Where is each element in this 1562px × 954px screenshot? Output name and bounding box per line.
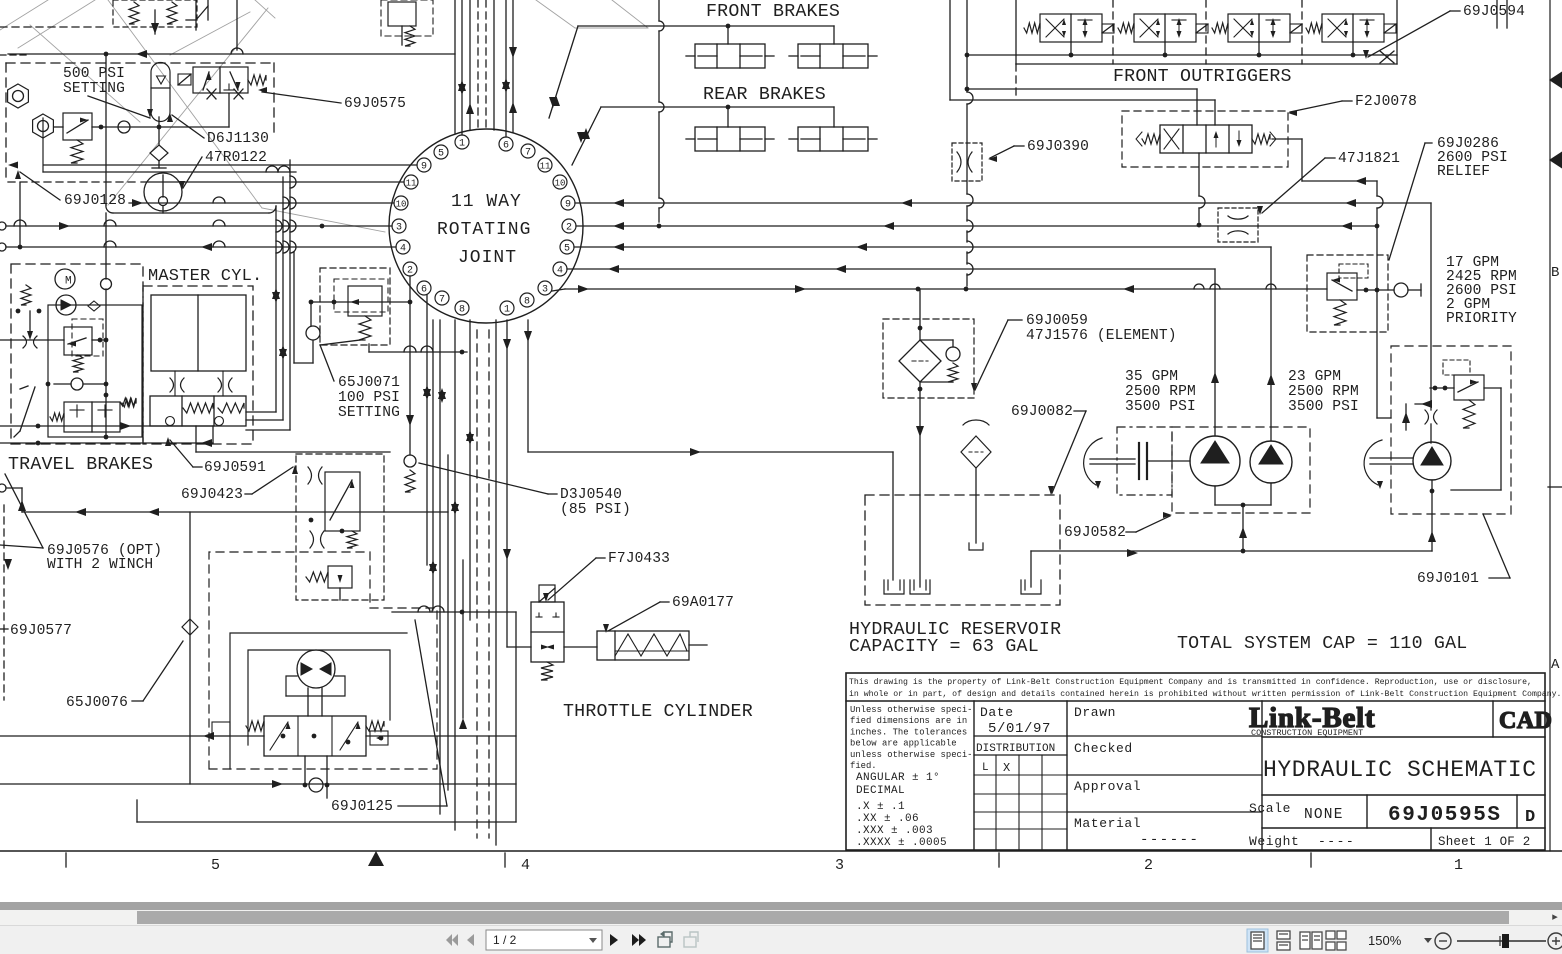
svg-text:3: 3 (542, 285, 548, 296)
wire supply y452 (196, 451, 390, 453)
wire leader 69J0125 (398, 805, 447, 807)
wire master loop 3 (289, 160, 291, 430)
valve 69J0423 body (325, 472, 360, 531)
wire leader 69J0390 (1014, 145, 1024, 147)
svg-text:47R0122: 47R0122 (205, 150, 267, 166)
wire breather drop (975, 468, 977, 543)
orifice steer (1425, 410, 1429, 424)
wire front brake header (578, 25, 834, 27)
brake cylinder front-left (695, 44, 765, 68)
svg-text:in whole or in part, of design: in whole or in part, of design and detai… (849, 689, 1561, 699)
svg-text:47J1821: 47J1821 (1338, 151, 1400, 167)
pump charge (56, 295, 76, 315)
two page mode (1300, 932, 1322, 949)
wire pump drain (1242, 505, 1244, 551)
spring priority (1334, 300, 1346, 325)
wire master loop 1 (275, 206, 277, 412)
svg-text:TOTAL SYSTEM CAP = 110 GAL: TOTAL SYSTEM CAP = 110 GAL (1177, 634, 1467, 654)
wire top right riser (1496, 0, 1498, 28)
boundary inner solid (43, 171, 296, 173)
node pin 3 (538, 281, 552, 295)
label 69J0577 (0, 628, 8, 630)
orifice mid (310, 531, 314, 548)
svg-text:9: 9 (421, 162, 427, 173)
wire leader 47J1821 (1325, 157, 1335, 159)
svg-text:69J0423: 69J0423 (181, 487, 243, 503)
node pin 1 (500, 301, 514, 315)
wire master loop 2 (282, 177, 284, 420)
check diamond 65J0071 (306, 326, 320, 340)
svg-text:69J0577: 69J0577 (10, 623, 72, 639)
wire rear brake drop left (727, 107, 729, 127)
node pin 9 (561, 196, 575, 210)
wire port lines (54, 126, 63, 128)
breather diamond (961, 436, 991, 468)
spring F2J0078 left (1142, 134, 1160, 144)
svg-text:69J0591: 69J0591 (204, 460, 266, 476)
boundary master cyl (143, 286, 253, 444)
spring F7J0433 (541, 662, 553, 680)
boundary travel-brake supply unit (6, 62, 274, 64)
wire leader D6J1130 (172, 115, 204, 138)
svg-text:6: 6 (421, 285, 427, 296)
valve outrigger 3 (1228, 14, 1290, 42)
check valve winch (309, 778, 323, 792)
svg-text:F2J0078: F2J0078 (1355, 94, 1417, 110)
wire manifold drop (195, 426, 197, 452)
svg-text:4: 4 (400, 244, 406, 255)
svg-text:------: ------ (1140, 832, 1199, 848)
node pin 11 (404, 175, 418, 189)
wire motor drops (307, 688, 309, 716)
motor M (55, 269, 75, 289)
svg-text:PRIORITY: PRIORITY (1446, 311, 1517, 327)
wire wiggle y612 (392, 611, 516, 613)
node center marker (368, 851, 384, 866)
wire throttle feed (507, 646, 531, 648)
svg-text:Sheet 1 OF 2: Sheet 1 OF 2 (1438, 835, 1530, 849)
node pin 10 (553, 175, 567, 189)
wire drop x20 (19, 183, 21, 245)
svg-text:CAD: CAD (1499, 708, 1553, 734)
node border tick 3 (998, 853, 1000, 867)
boundary tolerance cell (973, 701, 975, 850)
wire bottom rail y822 (137, 821, 516, 823)
boundary travel brakes inner (48, 305, 142, 437)
boundary winch outer (209, 552, 437, 769)
wire 69J0575 feed (228, 94, 230, 127)
svg-text:MASTER CYL.: MASTER CYL. (148, 267, 262, 286)
svg-text:47J1576 (ELEMENT): 47J1576 (ELEMENT) (1026, 328, 1177, 344)
pilot box left (212, 722, 230, 736)
winch control valve (264, 716, 366, 756)
wire front brake drop right (833, 26, 835, 44)
svg-text:inches. The tolerances: inches. The tolerances (850, 727, 967, 737)
spring steer (1463, 400, 1475, 428)
svg-text:69J0582: 69J0582 (1064, 525, 1126, 541)
svg-text:1: 1 (1454, 857, 1463, 874)
svg-text:69J0101: 69J0101 (1417, 571, 1479, 587)
svg-text:D: D (1525, 808, 1535, 827)
last page button (632, 934, 646, 946)
node pin 7 (521, 144, 535, 158)
wire bus pin3 left (0, 222, 6, 230)
svg-text:5/01/97: 5/01/97 (988, 721, 1051, 737)
coupling (1138, 443, 1140, 479)
wire bus pin10 left (129, 202, 394, 204)
wire riser x528 (527, 320, 529, 452)
check diamond (88, 301, 100, 311)
wire left dashed riser (3, 505, 5, 700)
svg-text:NONE: NONE (1304, 807, 1344, 823)
svg-text:RELIEF: RELIEF (1437, 164, 1490, 180)
zoom in button (1548, 933, 1562, 949)
boundary CAD cell (1492, 701, 1494, 737)
svg-text:3500 PSI: 3500 PSI (1125, 399, 1196, 415)
node pin 6 (417, 281, 431, 295)
svg-text:ROTATING: ROTATING (437, 220, 531, 240)
wire connector y213 (106, 205, 113, 213)
scrollbar upper strip (0, 902, 1562, 910)
svg-text:69J0128: 69J0128 (64, 193, 126, 209)
svg-text:fied dimensions are in: fied dimensions are in (850, 716, 967, 726)
page number box (486, 930, 602, 950)
cyl ports (174, 371, 176, 396)
svg-text:10: 10 (396, 200, 407, 210)
valve steer relief inner (1443, 360, 1470, 375)
wire leader F7J0433 (596, 557, 605, 559)
boundary 65J0071 (320, 268, 390, 345)
valve top x200 (195, 0, 197, 30)
svg-text:.XXX ± .003: .XXX ± .003 (856, 825, 933, 837)
wire winch loop (248, 650, 390, 745)
wire leader 65J0076 (132, 700, 143, 702)
svg-text:DISTRIBUTION: DISTRIBUTION (976, 743, 1055, 755)
wire leader 65J0071 (320, 345, 334, 381)
svg-text:6: 6 (503, 141, 509, 152)
wire riser x507 throttle (506, 320, 508, 647)
wire bus pin5 right (574, 246, 1271, 248)
wire leader 69J0591 (193, 466, 202, 468)
valve 69J0575 solenoid (193, 67, 248, 93)
steering pump (1413, 442, 1451, 480)
valve priority relief (1327, 273, 1357, 300)
zoom slider track (1457, 940, 1546, 942)
wire riser pin2 (409, 276, 411, 455)
wire leader F2J0078 (1342, 100, 1352, 102)
svg-text:69J0059: 69J0059 (1026, 313, 1088, 329)
wire leader 500psi (88, 96, 150, 118)
boundary scale row (1262, 794, 1545, 796)
pump 23gpm (1250, 441, 1292, 483)
wire priority out (1357, 289, 1394, 291)
fitting hex port B (33, 114, 54, 138)
node pin 9 (417, 158, 431, 172)
svg-text:Drawn: Drawn (1074, 705, 1116, 720)
wire leader 69J0101 (1489, 577, 1510, 579)
wire pump out 23 (1270, 247, 1272, 441)
node pin 5 (434, 145, 448, 159)
wire rear brake header (601, 106, 834, 108)
wire bus pin9 left (44, 164, 417, 166)
wire leader 69J0286 (1425, 142, 1432, 144)
svg-text:1: 1 (504, 305, 510, 316)
brake cylinder front-right (798, 44, 868, 68)
wire relief out (92, 126, 229, 128)
wire accumulator drop (158, 117, 160, 145)
scrollbar thumb (137, 911, 1509, 924)
svg-text:11: 11 (540, 162, 551, 172)
node pin 8 (455, 301, 469, 315)
spring reducer (306, 572, 328, 582)
check valve diamond (150, 145, 168, 161)
svg-text:CAPACITY = 63 GAL: CAPACITY = 63 GAL (849, 637, 1039, 657)
wire relief line (0, 339, 64, 341)
winch motor (297, 650, 335, 688)
wire 65J0071 line (311, 301, 410, 303)
wire dashed top-left (0, 26, 108, 28)
spring left of manifold (122, 399, 136, 407)
svg-text:WITH 2 WINCH: WITH 2 WINCH (47, 557, 153, 573)
check valve ball (118, 121, 130, 133)
node pin 4 (396, 240, 410, 254)
node pin 7 (435, 291, 449, 305)
boundary filter 69J0059 (883, 319, 974, 398)
wire filter feed (919, 289, 921, 340)
node border tick 2 (504, 853, 506, 867)
valve 65J0071 relief (348, 286, 382, 316)
boundary relief dashed (72, 319, 103, 356)
brake cylinder rear-right (798, 127, 868, 151)
node zone B arrow (1549, 72, 1562, 89)
svg-text:3: 3 (835, 857, 844, 874)
wire winch drain (304, 756, 306, 785)
svg-text:REAR BRAKES: REAR BRAKES (703, 85, 826, 105)
next page button (610, 934, 618, 946)
node pin 10 (394, 196, 408, 210)
svg-text:JOINT: JOINT (458, 248, 517, 268)
boundary 69J0423 (296, 454, 384, 600)
valve steer relief (1454, 375, 1484, 400)
wire leader 69J0423 (245, 493, 252, 495)
filter diamond (899, 340, 941, 382)
wire hose bumps (368, 344, 370, 352)
pilot box right (370, 731, 388, 745)
node border tick 1 (65, 853, 67, 867)
svg-text:fied.: fied. (850, 761, 877, 771)
tank port 3 (1030, 551, 1032, 587)
single page mode (selected) (1247, 929, 1268, 952)
svg-text:69J0390: 69J0390 (1027, 139, 1089, 155)
svg-text:Date: Date (980, 705, 1014, 720)
previous page button (467, 934, 474, 946)
valve 47J1821 orifice (1218, 208, 1258, 242)
svg-text:Weight: Weight (1249, 834, 1299, 849)
wire rail y736 (0, 735, 264, 737)
svg-text:SETTING: SETTING (338, 405, 400, 421)
svg-text:DECIMAL: DECIMAL (856, 785, 905, 797)
wire winch supply (0, 484, 6, 492)
svg-text:(85 PSI): (85 PSI) (560, 502, 631, 518)
node pin 4 (553, 262, 567, 276)
horizontal scrollbar (0, 910, 1562, 925)
svg-text:150%: 150% (1368, 933, 1402, 948)
svg-text:.XXXX ± .0005: .XXXX ± .0005 (856, 837, 947, 849)
wire bus pin11 left (141, 181, 404, 183)
wire outrigger feed (966, 0, 968, 92)
valve F7J0433 solenoid (539, 585, 555, 602)
valve F7J0433 body (531, 602, 564, 662)
wire valve to cylinder (564, 646, 597, 648)
filter bypass check (946, 347, 960, 361)
wire steer arrows (1405, 404, 1407, 430)
wire leader 69J0575 (262, 92, 341, 103)
wire 65J0071 left (293, 252, 295, 363)
boundary travel brakes (11, 264, 143, 444)
boundary outrigger bank (1015, 0, 1017, 64)
node border tick 4 (1310, 853, 1312, 867)
svg-text:2: 2 (407, 266, 413, 277)
node pin 11 (538, 158, 552, 172)
orifice top (308, 467, 312, 484)
valve top center (381, 0, 433, 36)
wire riser x659 brakes (658, 0, 660, 21)
svg-text:2500 RPM: 2500 RPM (1125, 384, 1196, 400)
svg-text:This drawing is the property o: This drawing is the property of Link-Bel… (849, 677, 1532, 687)
svg-text:100 PSI: 100 PSI (338, 390, 400, 406)
breather arc (963, 420, 989, 425)
svg-text:69J0595S: 69J0595S (1388, 804, 1502, 827)
svg-text:D6J1130: D6J1130 (207, 131, 269, 147)
spring 69J0423 (347, 531, 357, 548)
11 way rotating joint U-joint (389, 129, 583, 323)
svg-text:3500 PSI: 3500 PSI (1288, 399, 1359, 415)
wire leader 69J0128 (20, 172, 60, 200)
boundary tandem pump (1172, 427, 1310, 513)
node pin 1 (455, 135, 469, 149)
svg-text:Material: Material (1074, 816, 1141, 831)
boundary weight row (1262, 827, 1545, 829)
wire bus pin4 right (567, 268, 1215, 270)
svg-text:----: ---- (1318, 834, 1355, 849)
wire leader D3J0540 (548, 493, 557, 495)
svg-text:A: A (1551, 657, 1560, 673)
svg-text:5: 5 (438, 149, 444, 160)
wire steer right (1484, 387, 1501, 389)
wire sheet right border (1549, 0, 1551, 851)
previous view button (658, 931, 672, 947)
boundary steering pump (1391, 346, 1511, 514)
wire tank return (1031, 550, 1432, 552)
wire steer suction (1431, 480, 1433, 551)
boundary hydraulic reservoir (865, 495, 1060, 605)
node pin 2 (562, 219, 576, 233)
svg-text:10: 10 (555, 179, 566, 189)
fitting hex port A (8, 84, 29, 108)
winch motor frame (286, 676, 297, 696)
svg-text:FRONT OUTRIGGERS: FRONT OUTRIGGERS (1113, 67, 1292, 87)
tank port 1 (892, 452, 894, 580)
svg-text:D3J0540: D3J0540 (560, 487, 622, 503)
check valve circle2 (71, 378, 83, 390)
node pin 8 (520, 293, 534, 307)
svg-text:2: 2 (1144, 857, 1153, 874)
svg-text:X: X (1003, 761, 1010, 775)
svg-text:11 WAY: 11 WAY (451, 192, 522, 212)
wire rail y784 (0, 783, 516, 785)
boundary inner dashed bottom (8, 181, 140, 183)
spring winch right (366, 721, 384, 731)
node pin 6 (499, 137, 513, 151)
svg-text:69A0177: 69A0177 (672, 595, 734, 611)
svg-text:CONSTRUCTION EQUIPMENT: CONSTRUCTION EQUIPMENT (1251, 728, 1363, 738)
valve outrigger 1 (1040, 14, 1102, 42)
accumulator D6J1130 (151, 63, 170, 89)
svg-text:Checked: Checked (1074, 741, 1133, 756)
wire leader 47R0122 (183, 157, 202, 188)
svg-text:69J0575: 69J0575 (344, 96, 406, 112)
wire winch left riser (189, 512, 191, 784)
svg-text:8: 8 (524, 297, 530, 308)
travel brake valve (64, 402, 120, 432)
boundary distribution (974, 754, 1067, 756)
node pin 3 (392, 219, 406, 233)
svg-text:.X ± .1: .X ± .1 (856, 801, 905, 813)
pump 35gpm (1190, 436, 1240, 486)
wire bus pin2 right (576, 225, 1377, 227)
wire F2J0078 pilots (1196, 89, 1198, 125)
svg-text:69J0082: 69J0082 (1011, 404, 1073, 420)
viewer toolbar (0, 925, 1562, 954)
boundary winch inner (230, 633, 407, 769)
first page button (446, 934, 458, 946)
svg-text:5: 5 (211, 857, 220, 874)
svg-text:65J0076: 65J0076 (66, 695, 128, 711)
wire riser bundle above joint (454, 0, 456, 133)
svg-text:7: 7 (439, 295, 445, 306)
boundary priority inner (1339, 264, 1368, 278)
svg-text:TRAVEL BRAKES: TRAVEL BRAKES (8, 455, 153, 475)
boundary logo cell (1261, 701, 1263, 850)
svg-text:65J0071: 65J0071 (338, 375, 400, 391)
svg-text:SETTING: SETTING (63, 81, 125, 97)
svg-text:11: 11 (406, 179, 417, 189)
continuous scroll mode (1277, 931, 1290, 950)
wire leader 69J0576 (5, 474, 43, 548)
wire leader 69A0177 (660, 601, 669, 603)
svg-text:9: 9 (565, 200, 571, 211)
wire outrigger rail (1016, 54, 1397, 56)
node pin 5 (560, 240, 574, 254)
check ball priority (1394, 283, 1408, 297)
svg-text:THROTTLE CYLINDER: THROTTLE CYLINDER (563, 702, 753, 722)
tank port 2 (919, 495, 921, 587)
wire pilot line B (949, 0, 951, 100)
svg-text:8: 8 (459, 305, 465, 316)
valve outrigger 4 (1322, 14, 1384, 42)
spring winch left (246, 721, 264, 731)
svg-text:Scale: Scale (1249, 801, 1291, 816)
svg-text:unless otherwise speci-: unless otherwise speci- (850, 750, 973, 760)
relief spring left (21, 285, 31, 305)
svg-text:Approval: Approval (1074, 779, 1141, 794)
master cyl reservoir (151, 295, 246, 371)
spring F2J0078 right (1252, 134, 1270, 144)
svg-text:1 / 2: 1 / 2 (493, 933, 517, 947)
svg-text:4: 4 (521, 857, 530, 874)
boundary pump drive (1117, 427, 1172, 495)
svg-text:L: L (982, 762, 989, 774)
